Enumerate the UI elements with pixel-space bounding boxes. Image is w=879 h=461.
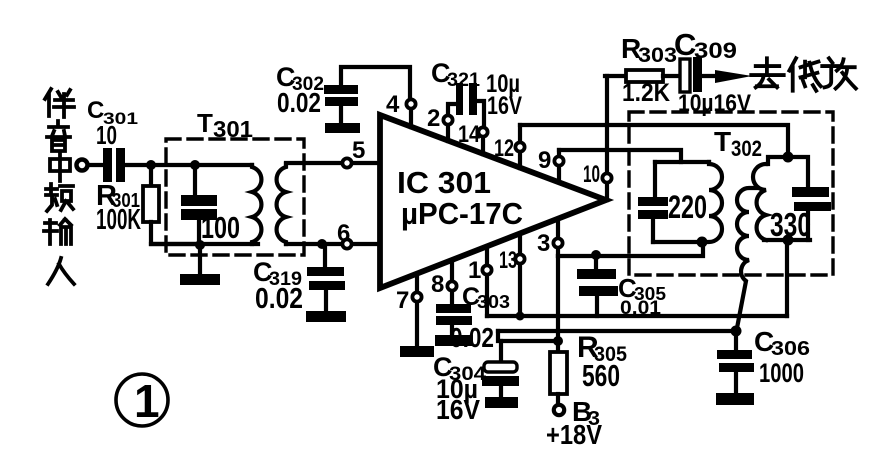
ground under C302 xyxy=(325,123,360,133)
T301 secondary winding xyxy=(277,164,286,244)
pin number 2 xyxy=(427,105,440,132)
label C309 value 10u16V xyxy=(674,27,751,117)
label C301 value 10 xyxy=(87,97,138,150)
capacitor C303 xyxy=(436,304,472,336)
capacitor C305 xyxy=(577,257,618,316)
rail A feedback xyxy=(487,314,787,318)
capacitor C319 xyxy=(307,245,345,312)
pin 1 xyxy=(482,248,491,316)
svg-text:1: 1 xyxy=(468,257,481,284)
svg-text:13: 13 xyxy=(499,247,517,274)
pin number 1 xyxy=(468,257,481,284)
svg-text:309: 309 xyxy=(694,38,737,63)
node junction T302 secondary top xyxy=(783,152,794,163)
char DI of output label xyxy=(789,58,820,90)
label B3 xyxy=(572,396,600,430)
node junction C319 xyxy=(317,239,327,249)
ground under C306 xyxy=(716,393,754,405)
capacitor C302 xyxy=(324,85,358,124)
svg-text:303: 303 xyxy=(638,44,677,67)
label C305 value 0.01 xyxy=(618,273,666,319)
resistor R303 xyxy=(605,70,680,82)
char FANG of output label xyxy=(822,58,856,88)
svg-text:220: 220 xyxy=(668,189,707,225)
pin number 5 xyxy=(352,137,365,164)
svg-text:8: 8 xyxy=(431,271,444,298)
resistor R305 xyxy=(550,341,567,404)
label +18V xyxy=(546,419,602,450)
svg-text:1: 1 xyxy=(134,375,160,427)
wire secondary bottom to rail A xyxy=(785,240,789,316)
svg-text:302: 302 xyxy=(731,136,762,161)
pin 13 xyxy=(515,235,524,316)
node junction T301 bottom xyxy=(195,240,205,250)
T302 primary top rail xyxy=(655,160,709,164)
pin 8 xyxy=(447,261,456,305)
wire T301 secondary top to pin 5 xyxy=(286,161,341,165)
char BAN of input label xyxy=(45,89,74,117)
svg-text:12: 12 xyxy=(494,135,514,162)
T302 secondary winding xyxy=(753,164,766,240)
svg-text:9: 9 xyxy=(538,147,551,174)
svg-text:2: 2 xyxy=(427,105,440,132)
char QU of output label xyxy=(751,58,783,87)
pin number 8 xyxy=(431,271,444,298)
svg-text:7: 7 xyxy=(396,287,409,314)
circled figure number 1 xyxy=(116,374,168,427)
pin number 3 xyxy=(537,230,550,257)
svg-text:T: T xyxy=(714,126,731,157)
capacitor C304 xyxy=(482,341,519,398)
svg-text:5: 5 xyxy=(352,137,365,164)
svg-text:0.01: 0.01 xyxy=(620,298,661,319)
input terminal xyxy=(77,160,88,171)
pin 9 xyxy=(554,150,563,182)
T301 bottom rail xyxy=(151,242,258,246)
svg-text:6: 6 xyxy=(337,220,350,247)
pin number 4 xyxy=(386,91,400,118)
node junction R301 xyxy=(146,160,156,170)
svg-text:4: 4 xyxy=(386,91,400,118)
op-amp IC301 triangle xyxy=(380,115,606,288)
svg-text:301: 301 xyxy=(213,116,253,142)
pin 5 xyxy=(342,158,380,167)
svg-text:330: 330 xyxy=(770,206,811,243)
terminal B3 xyxy=(554,405,564,415)
capacitor C306 xyxy=(717,331,754,394)
pin number 9 xyxy=(538,147,551,174)
capacitor 220 xyxy=(638,162,668,242)
node pin 13 on rail xyxy=(516,312,525,321)
wire pin 3 to T302 primary bottom xyxy=(558,243,703,256)
svg-text:IC 301: IC 301 xyxy=(397,165,491,200)
output arrow to audio amp xyxy=(702,70,752,83)
T302 primary winding xyxy=(709,162,722,242)
svg-text:560: 560 xyxy=(582,358,620,393)
transformer T301 dashed box xyxy=(166,139,304,255)
wires T302 secondary top node xyxy=(768,157,808,187)
label 220 xyxy=(668,189,707,225)
wire C301 to T301 xyxy=(125,163,252,167)
label R305 value 560 xyxy=(577,331,627,393)
wire C302 to pin 4 xyxy=(341,67,410,98)
ground under T301 xyxy=(180,245,220,285)
T301 primary winding xyxy=(252,165,261,244)
svg-text:100K: 100K xyxy=(96,204,141,236)
svg-text:10µ16V: 10µ16V xyxy=(678,90,751,117)
svg-text:0.02: 0.02 xyxy=(255,283,303,315)
pin 4 xyxy=(406,99,415,127)
svg-text:303: 303 xyxy=(477,292,510,312)
svg-text:16V: 16V xyxy=(487,92,522,120)
char YIN of input label xyxy=(47,121,70,151)
T302 tap winding wavy xyxy=(737,188,757,328)
pin 6 xyxy=(342,239,380,248)
wire node X vertical xyxy=(556,256,560,341)
label 330 xyxy=(770,206,811,243)
svg-text:10: 10 xyxy=(96,120,117,150)
svg-text:10: 10 xyxy=(583,161,600,188)
svg-text:100: 100 xyxy=(201,210,240,245)
wire T301 secondary bottom to pin 6 xyxy=(286,242,341,246)
svg-text:0.02: 0.02 xyxy=(277,87,321,118)
node junction C305 top xyxy=(591,250,601,260)
svg-text:+18V: +18V xyxy=(546,419,602,450)
svg-text:µPC-17C: µPC-17C xyxy=(401,196,523,231)
char RU of input label xyxy=(48,258,74,284)
svg-text:14: 14 xyxy=(458,121,481,148)
char SHU of input label xyxy=(44,219,71,244)
capacitor 330 xyxy=(792,187,831,240)
ground under C319 xyxy=(306,311,346,322)
label C319 value 0.02 xyxy=(253,257,303,315)
T302 secondary bottom rail xyxy=(764,238,810,242)
label 100 xyxy=(201,210,240,245)
pin 10 xyxy=(602,76,611,200)
char ZHONG of input label xyxy=(50,152,70,181)
label C303 value 0.02 xyxy=(450,283,510,353)
pin 7 xyxy=(412,275,421,347)
capacitor C301 xyxy=(103,148,125,182)
capacitor C321 xyxy=(456,83,484,126)
rail B supply xyxy=(498,331,736,341)
svg-text:321: 321 xyxy=(447,70,480,91)
pin number 10 xyxy=(583,161,600,188)
pin 12 xyxy=(515,125,524,168)
ground under C303 xyxy=(435,335,473,346)
wire input to C301 xyxy=(89,163,103,167)
svg-text:1.2K: 1.2K xyxy=(622,79,670,107)
char PIN of input label xyxy=(46,184,73,211)
pin 14 xyxy=(478,127,487,154)
node junction C304 wire xyxy=(553,336,563,346)
pin number 12 xyxy=(494,135,514,162)
resistor R301 xyxy=(143,165,199,244)
pin number 6 xyxy=(337,220,350,247)
ground under C304 xyxy=(485,397,518,408)
pin 2 xyxy=(443,104,456,141)
label C304 value 10u 16V xyxy=(433,352,487,425)
capacitor C309 xyxy=(680,57,702,92)
label C306 value 1000 xyxy=(754,326,810,388)
T302 primary bottom rail xyxy=(653,240,703,244)
label T301 xyxy=(197,108,253,142)
node junction T301 top xyxy=(190,160,200,170)
transformer T302 dashed box xyxy=(629,112,833,275)
label T302 xyxy=(714,126,762,161)
wire pin 12 to T302 secondary top xyxy=(520,125,788,151)
wire pin 9 to T302 primary top xyxy=(559,150,681,162)
pin number 13 xyxy=(499,247,517,274)
svg-text:0.02: 0.02 xyxy=(450,322,494,353)
node junction C306 xyxy=(731,326,742,337)
label R301 value 100K xyxy=(96,180,141,236)
pin 3 xyxy=(553,221,562,256)
label IC301 xyxy=(397,165,523,231)
pin number 14 xyxy=(458,121,481,148)
label C302 value 0.02 xyxy=(276,62,324,118)
ground under pin 7 xyxy=(400,346,434,357)
label C321 value 10u 16V xyxy=(431,58,522,120)
svg-text:16V: 16V xyxy=(436,394,480,425)
pin number 7 xyxy=(396,287,409,314)
label R303 value 1.2K xyxy=(621,33,677,107)
svg-text:1000: 1000 xyxy=(759,358,804,388)
node junction T302 primary bottom xyxy=(697,237,708,248)
svg-text:3: 3 xyxy=(537,230,550,257)
node junction T302 secondary bottom xyxy=(783,235,794,246)
CJK-SECTION xyxy=(44,58,856,284)
capacitor 100 inside T301 xyxy=(181,165,217,243)
svg-text:T: T xyxy=(197,108,213,138)
svg-text:306: 306 xyxy=(771,338,810,360)
TEXT-SECTION xyxy=(87,27,811,450)
